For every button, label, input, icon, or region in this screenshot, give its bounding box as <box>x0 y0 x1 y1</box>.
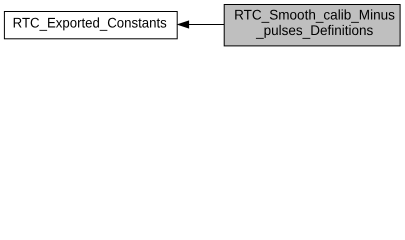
arrowhead <box>178 21 188 28</box>
node RTC_Smooth_calib_Minus_pulses_Definitions <box>224 5 400 46</box>
svg-text:RTC_Smooth_calib_Minus: RTC_Smooth_calib_Minus <box>234 6 395 23</box>
wire edge shaft <box>189 24 225 26</box>
svg-text:_pulses_Definitions: _pulses_Definitions <box>255 22 373 39</box>
svg-text:RTC_Exported_Constants: RTC_Exported_Constants <box>13 15 167 32</box>
node RTC_Exported_Constants <box>4 12 177 39</box>
